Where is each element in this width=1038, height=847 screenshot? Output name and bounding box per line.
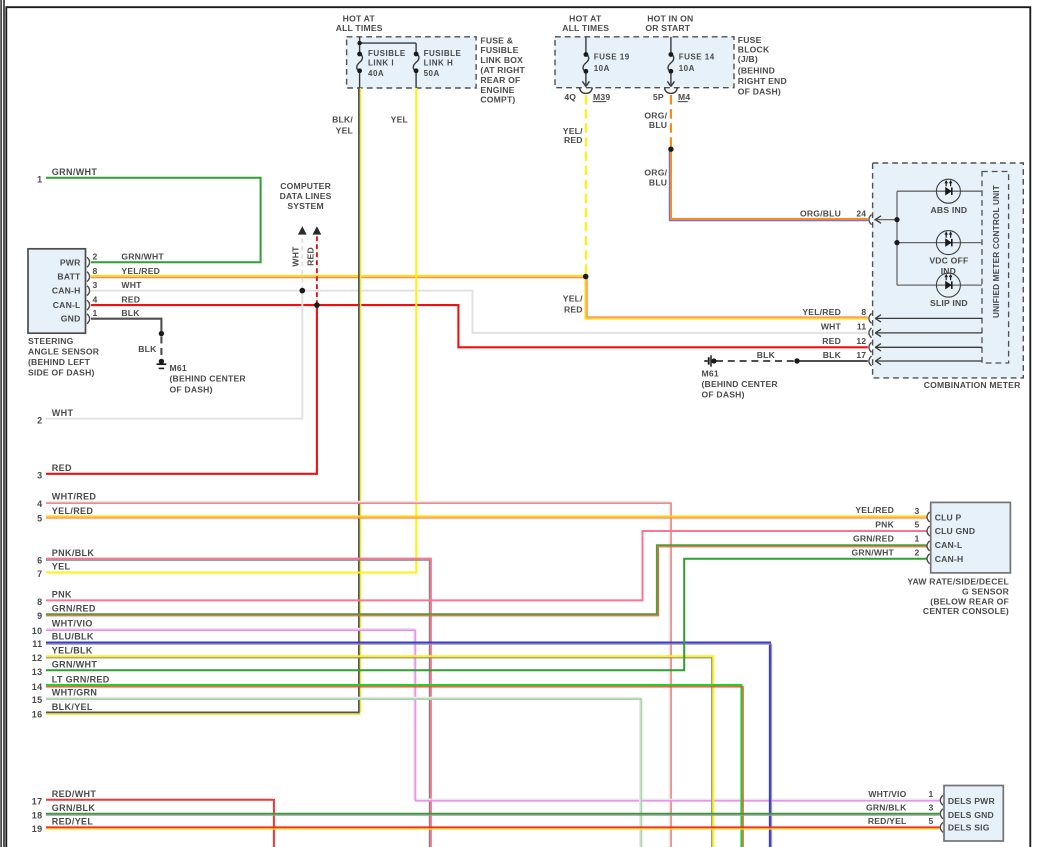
svg-text:ABS IND: ABS IND — [931, 205, 968, 215]
wire BATT YEL/RED row (red stripe) — [91, 277, 585, 279]
svg-text:FUSE &: FUSE & — [480, 35, 513, 45]
svg-text:1: 1 — [915, 534, 920, 544]
wire 6 PNK/BLK (black stripe) — [46, 560, 429, 847]
svg-text:STEERING: STEERING — [28, 336, 74, 346]
yaw sensor pin 2 connector — [927, 554, 930, 564]
svg-text:CAN-H: CAN-H — [935, 554, 964, 564]
svg-text:(BEHIND LEFT: (BEHIND LEFT — [28, 357, 91, 367]
wire 10 WHT/VIO to DELS PWR (gray) — [46, 629, 940, 800]
svg-text:RIGHT END: RIGHT END — [738, 76, 787, 86]
svg-text:YEL/RED: YEL/RED — [121, 266, 160, 276]
wire YEL/RED solid elbow to comb meter pin 8 (yellow) — [586, 277, 868, 319]
svg-text:YEL/: YEL/ — [563, 293, 583, 303]
svg-text:17: 17 — [32, 797, 43, 807]
svg-text:12: 12 — [32, 653, 43, 663]
svg-text:5: 5 — [929, 816, 934, 826]
LED ABS IND — [936, 179, 960, 203]
svg-text:10A: 10A — [594, 64, 610, 73]
svg-text:(BEHIND: (BEHIND — [738, 66, 775, 76]
svg-text:SYSTEM: SYSTEM — [287, 201, 324, 211]
svg-text:UNIFIED METER CONTROL UNIT: UNIFIED METER CONTROL UNIT — [992, 185, 1001, 318]
page edge line A — [0, 0, 2, 847]
svg-text:WHT: WHT — [291, 246, 301, 267]
steering pin 4 connector — [87, 300, 90, 310]
svg-text:M61: M61 — [702, 369, 719, 379]
svg-text:WHT/VIO: WHT/VIO — [868, 789, 906, 799]
wire BLK/YEL vertical from fusible link I (yellow stripe) — [360, 88, 362, 712]
svg-text:SLIP IND: SLIP IND — [930, 298, 968, 308]
svg-text:BLK/: BLK/ — [332, 115, 353, 125]
svg-text:ALL TIMES: ALL TIMES — [562, 23, 609, 33]
DELS pin 3 connector — [940, 809, 943, 819]
comb meter pin 11 connector — [869, 328, 872, 338]
svg-text:DELS GND: DELS GND — [948, 810, 994, 820]
svg-text:10A: 10A — [679, 64, 695, 73]
wire 14 LT GRN/RED (light green) — [46, 685, 741, 847]
svg-text:SIDE OF DASH): SIDE OF DASH) — [28, 368, 95, 378]
svg-text:CENTER CONSOLE): CENTER CONSOLE) — [923, 606, 1009, 616]
svg-text:DATA LINES: DATA LINES — [280, 191, 332, 201]
fuse block (J/B) box (dashed, light blue) — [555, 37, 734, 88]
wire 16 BLK/YEL row (yellow stripe) — [46, 713, 361, 715]
svg-text:GRN/BLK: GRN/BLK — [866, 802, 907, 812]
svg-text:6: 6 — [37, 556, 42, 566]
svg-text:24: 24 — [856, 208, 866, 218]
svg-text:FUSIBLE: FUSIBLE — [368, 49, 406, 58]
svg-text:COMBINATION METER: COMBINATION METER — [924, 380, 1021, 390]
wire 19 RED/YEL (yellow stripe) — [46, 828, 940, 830]
arrow computer data lines WHT — [298, 226, 307, 234]
svg-text:GRN/BLK: GRN/BLK — [52, 803, 96, 813]
svg-text:HOT AT: HOT AT — [569, 13, 602, 23]
svg-text:FUSE 19: FUSE 19 — [594, 53, 630, 62]
svg-text:LT GRN/RED: LT GRN/RED — [52, 674, 110, 684]
wire 19 RED/YEL to DELS SIG (red) — [46, 826, 940, 828]
wire 15 WHT/GRN (green stripe) — [46, 699, 641, 847]
svg-text:11: 11 — [857, 322, 867, 332]
svg-text:CLU GND: CLU GND — [935, 526, 976, 536]
svg-text:OR START: OR START — [645, 23, 690, 33]
svg-text:M4: M4 — [678, 92, 690, 102]
svg-text:ORG/BLU: ORG/BLU — [800, 208, 841, 218]
svg-text:BLU: BLU — [649, 120, 667, 130]
wire GND BLK: steering pin 1 elbow — [91, 319, 161, 334]
unified meter control unit inner box (dashed) — [982, 172, 1009, 364]
svg-text:4: 4 — [93, 295, 98, 305]
svg-text:(BEHIND CENTER: (BEHIND CENTER — [170, 374, 247, 384]
svg-text:FUSIBLE: FUSIBLE — [480, 45, 518, 55]
svg-text:5: 5 — [37, 514, 42, 524]
svg-text:GRN/WHT: GRN/WHT — [52, 167, 98, 177]
svg-text:REAR OF: REAR OF — [480, 75, 520, 85]
svg-text:BLK: BLK — [138, 344, 157, 354]
wire BLK dashed from ground M61 (right) — [716, 360, 794, 362]
ground M61 (right, at combination meter BLK wire) — [704, 355, 716, 366]
svg-text:2: 2 — [915, 548, 920, 558]
steering angle sensor box — [28, 249, 86, 333]
svg-text:8: 8 — [37, 597, 42, 607]
svg-text:ALL TIMES: ALL TIMES — [336, 23, 383, 33]
svg-text:PNK: PNK — [52, 590, 72, 600]
svg-text:3: 3 — [929, 802, 934, 812]
svg-text:G SENSOR: G SENSOR — [962, 587, 1010, 597]
fuse 19 (10A) element — [582, 37, 589, 87]
svg-text:4Q: 4Q — [564, 92, 576, 102]
comb meter pin 24 connector — [869, 215, 872, 225]
svg-text:13: 13 — [32, 667, 43, 677]
junction dot WHT / CAN-H — [300, 288, 306, 294]
svg-text:15: 15 — [32, 695, 43, 705]
wire 12 YEL/BLK (black stripe) — [46, 658, 712, 847]
wire 4 WHT/RED (red stripe) — [46, 503, 671, 847]
wire 5 YEL/RED to yaw CLU P (yellow) — [46, 515, 927, 517]
svg-text:YEL/BLK: YEL/BLK — [52, 646, 93, 656]
yaw sensor pin 1 connector — [927, 541, 930, 551]
junction dot comb meter pin24 branch — [894, 217, 899, 222]
wire 17 RED/WHT — [46, 800, 274, 847]
fusible link I (40A) element — [357, 37, 416, 88]
svg-text:18: 18 — [32, 810, 43, 820]
junction dot GND BLK — [159, 331, 164, 336]
arrow computer data lines RED — [313, 226, 322, 234]
svg-text:M39: M39 — [593, 92, 610, 102]
svg-text:50A: 50A — [424, 69, 440, 78]
LED VDC OFF IND — [936, 231, 960, 255]
wire 4 WHT/RED (gray) — [46, 502, 670, 847]
svg-text:WHT/GRN: WHT/GRN — [52, 688, 97, 698]
svg-text:OF DASH): OF DASH) — [702, 389, 745, 399]
comb meter pin 12 connector — [869, 342, 872, 352]
svg-text:4: 4 — [37, 499, 42, 509]
svg-text:WHT: WHT — [821, 322, 842, 332]
svg-text:RED: RED — [52, 463, 72, 473]
svg-text:GRN/WHT: GRN/WHT — [121, 252, 164, 262]
svg-text:WHT: WHT — [121, 280, 142, 290]
wire 5 YEL/RED (red stripe) — [46, 517, 927, 519]
svg-text:3: 3 — [915, 506, 920, 516]
wire BATT YEL/RED row (yellow) — [91, 275, 586, 277]
wire BLK/YEL vertical from fusible link I (gray) — [358, 88, 360, 713]
svg-text:LINK BOX: LINK BOX — [480, 55, 523, 65]
svg-text:19: 19 — [32, 824, 43, 834]
svg-text:CAN-H: CAN-H — [52, 286, 81, 296]
svg-text:(AT RIGHT: (AT RIGHT — [480, 65, 525, 75]
wire YEL/RED elbow red stripe — [587, 278, 868, 317]
svg-text:YEL/RED: YEL/RED — [802, 307, 841, 317]
svg-text:VDC OFF: VDC OFF — [929, 255, 968, 265]
junction dot BLK near comb meter — [794, 358, 799, 363]
svg-text:YEL: YEL — [336, 126, 353, 136]
wire 18 GRN/BLK to DELS GND (green) — [46, 813, 940, 815]
wire 11 BLU/BLK (black stripe) — [46, 644, 772, 847]
wire 10 WHT/VIO (violet stripe) — [46, 630, 940, 801]
svg-text:LINK H: LINK H — [424, 59, 454, 68]
svg-text:YEL/RED: YEL/RED — [52, 506, 94, 516]
svg-text:ENGINE: ENGINE — [480, 85, 514, 95]
wire ORG dashed from fuse 14 — [670, 95, 672, 147]
svg-text:RED: RED — [564, 135, 583, 145]
svg-text:BLK/YEL: BLK/YEL — [52, 702, 93, 712]
svg-text:1: 1 — [929, 789, 934, 799]
svg-text:WHT/RED: WHT/RED — [52, 492, 97, 502]
svg-text:M61: M61 — [170, 363, 187, 373]
svg-text:COMPUTER: COMPUTER — [280, 181, 331, 191]
svg-text:BLK: BLK — [823, 350, 842, 360]
svg-text:RED/YEL: RED/YEL — [868, 816, 907, 826]
svg-text:FUSIBLE: FUSIBLE — [424, 49, 462, 58]
wire 2 WHT: row 2 up to CAN-H junction — [46, 291, 302, 419]
yaw sensor pin 3 connector — [927, 512, 930, 522]
svg-text:(BEHIND CENTER: (BEHIND CENTER — [702, 379, 779, 389]
wire YEL vertical from fusible link H joining row 7 — [46, 88, 416, 573]
svg-text:BLU: BLU — [649, 178, 667, 188]
page edge line B — [3, 0, 5, 847]
svg-text:LINK I: LINK I — [368, 59, 394, 68]
svg-text:10: 10 — [32, 626, 43, 636]
svg-text:40A: 40A — [368, 69, 384, 78]
svg-text:FUSE: FUSE — [738, 35, 762, 45]
DELS box — [944, 786, 1003, 842]
wire 3 RED: row 3 up to CAN-L junction — [46, 305, 317, 474]
svg-text:OF DASH): OF DASH) — [170, 384, 213, 394]
svg-text:BLU/BLK: BLU/BLK — [52, 632, 94, 642]
comb meter pin wires with arrowheads — [875, 216, 982, 365]
svg-text:ANGLE SENSOR: ANGLE SENSOR — [28, 347, 100, 357]
svg-text:PNK: PNK — [875, 519, 894, 529]
svg-text:5: 5 — [915, 520, 920, 530]
svg-text:GRN/WHT: GRN/WHT — [852, 547, 895, 557]
svg-text:CLU P: CLU P — [935, 513, 962, 523]
yaw sensor pin 5 connector — [927, 526, 930, 536]
wire 13 GRN/WHT: row 13 up to yaw CAN-H — [46, 559, 927, 671]
DELS pin 5 connector — [940, 822, 943, 832]
wire 14 LT GRN/RED (red stripe) — [46, 687, 743, 847]
svg-text:1: 1 — [37, 175, 42, 185]
junction dot comb meter VDC branch — [894, 240, 899, 245]
fuse 14 (10A) element — [667, 37, 674, 87]
svg-text:(J/B): (J/B) — [738, 54, 758, 64]
wire 9 GRN/RED: row 9 up to yaw CAN-L (green) — [46, 545, 927, 614]
svg-text:5P: 5P — [653, 92, 664, 102]
yaw rate/side/decel G sensor box — [931, 502, 1011, 573]
wire CAN-H WHT: steering pin 3 to comb meter pin 11 — [91, 291, 868, 333]
svg-text:16: 16 — [32, 710, 43, 720]
steering pin 8 connector — [87, 272, 90, 282]
svg-text:3: 3 — [37, 471, 42, 481]
junction dot ORG/BLU — [668, 147, 673, 152]
wire BLK solid to comb meter pin 17 — [797, 360, 868, 362]
svg-text:11: 11 — [32, 639, 42, 649]
fusible link H (50A) element — [413, 43, 419, 88]
svg-text:CAN-L: CAN-L — [53, 300, 81, 310]
wire CAN-L RED: steering pin 4 to comb meter pin 12 — [91, 305, 868, 347]
svg-text:PNK/BLK: PNK/BLK — [52, 548, 95, 558]
svg-text:WHT/VIO: WHT/VIO — [52, 619, 93, 629]
svg-text:IND: IND — [941, 266, 956, 276]
svg-text:BATT: BATT — [57, 272, 81, 282]
svg-text:OF DASH): OF DASH) — [738, 86, 781, 96]
svg-text:GRN/RED: GRN/RED — [853, 533, 894, 543]
svg-text:BLK: BLK — [757, 350, 776, 360]
svg-text:WHT: WHT — [52, 408, 74, 418]
wire YEL/RED dashed from fuse 19 — [585, 95, 587, 275]
steering pin 1 connector — [87, 314, 90, 324]
DELS pin 1 connector — [940, 795, 943, 805]
wire ORG/BLU solid to comb meter pin 24 (orange) — [671, 149, 868, 219]
svg-text:HOT AT: HOT AT — [343, 13, 376, 23]
junction dot RED / CAN-L — [314, 302, 320, 308]
svg-text:FUSE 14: FUSE 14 — [679, 53, 715, 62]
svg-text:12: 12 — [856, 336, 866, 346]
svg-text:RED/YEL: RED/YEL — [52, 817, 94, 827]
svg-text:ORG/: ORG/ — [644, 168, 667, 178]
svg-text:8: 8 — [861, 307, 866, 317]
ground M61 (left, below steering) — [157, 359, 167, 369]
LED SLIP IND — [936, 273, 960, 297]
svg-text:GRN/WHT: GRN/WHT — [52, 660, 98, 670]
wire 18 GRN/BLK (black stripe) — [46, 814, 940, 816]
comb meter pin 8 connector — [869, 313, 872, 323]
svg-text:BLOCK: BLOCK — [738, 45, 770, 55]
svg-text:7: 7 — [37, 569, 42, 579]
connector 4Q M39 (cup) — [579, 88, 592, 94]
wire ORG/BLU blue stripe — [669, 149, 867, 220]
svg-text:ORG/: ORG/ — [644, 111, 667, 121]
connector 5P M4 (cup) — [664, 88, 677, 94]
svg-text:COMPT): COMPT) — [480, 95, 515, 105]
wire 8 PNK: row 8 up to yaw CLU GND — [46, 531, 927, 600]
svg-text:BLK: BLK — [121, 308, 140, 318]
svg-text:2: 2 — [37, 415, 42, 425]
svg-text:14: 14 — [32, 682, 43, 692]
comb meter internal wiring — [874, 191, 982, 285]
wire 15 WHT/GRN (gray) — [46, 698, 640, 847]
steering pin 2 connector — [87, 257, 90, 267]
wire 11 BLU/BLK (blue) — [46, 643, 770, 847]
svg-text:GRN/RED: GRN/RED — [52, 603, 96, 613]
svg-text:8: 8 — [93, 266, 98, 276]
svg-text:YEL: YEL — [52, 562, 71, 572]
svg-text:DELS SIG: DELS SIG — [948, 823, 990, 833]
svg-text:YEL: YEL — [391, 115, 408, 125]
svg-text:1: 1 — [93, 308, 98, 318]
svg-text:CAN-L: CAN-L — [935, 540, 963, 550]
svg-text:PWR: PWR — [60, 257, 81, 267]
svg-text:GND: GND — [61, 314, 81, 324]
svg-text:RED/WHT: RED/WHT — [52, 789, 97, 799]
svg-text:3: 3 — [93, 280, 98, 290]
wire 16 BLK/YEL row (gray) — [46, 711, 359, 713]
svg-text:HOT IN ON: HOT IN ON — [647, 13, 693, 23]
wire 9 GRN/RED (red stripe) — [46, 547, 927, 616]
combination meter box (dashed) — [873, 163, 1024, 378]
svg-text:9: 9 — [37, 611, 42, 621]
svg-text:2: 2 — [93, 252, 98, 262]
steering pin 3 connector — [87, 286, 90, 296]
svg-text:RED: RED — [121, 294, 140, 304]
wire 12 YEL/BLK (yellow) — [46, 656, 713, 847]
wire computer data line RED dashed (to arrow) — [316, 236, 318, 306]
svg-text:YAW RATE/SIDE/DECEL: YAW RATE/SIDE/DECEL — [907, 577, 1009, 587]
svg-text:RED: RED — [305, 247, 315, 266]
comb meter pin 17 connector — [869, 356, 872, 366]
svg-text:RED: RED — [564, 304, 583, 314]
wire computer data line WHT dashed (to arrow) — [301, 236, 303, 291]
junction dot YEL/RED at BATT row — [583, 274, 589, 280]
svg-text:DELS PWR: DELS PWR — [948, 796, 996, 806]
svg-text:YEL/RED: YEL/RED — [855, 505, 894, 515]
svg-text:RED: RED — [822, 336, 841, 346]
fuse & fusible link box (dashed, light blue) — [347, 37, 477, 88]
wire 1 GRN/WHT: row 1 to steering PWR pin 2 — [46, 178, 261, 262]
wire 6 PNK/BLK (pink) — [46, 559, 431, 847]
svg-text:(BELOW REAR OF: (BELOW REAR OF — [930, 596, 1009, 606]
wire GND BLK dashed drop to ground M61 — [160, 337, 162, 359]
svg-text:17: 17 — [856, 350, 866, 360]
